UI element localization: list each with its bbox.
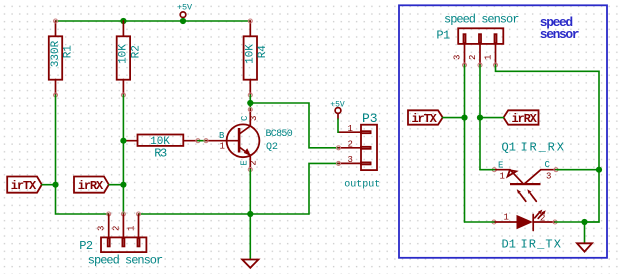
junction top rail R2 [120,18,126,24]
svg-text:330R: 330R [50,40,62,67]
wire Q1 emitter [480,169,494,171]
photo arrows [520,194,526,202]
svg-text:Q2: Q2 [266,142,278,153]
wire emitter rail [139,213,310,215]
svg-text:3: 3 [249,116,259,121]
hierarchical label irTX in box [408,110,443,126]
svg-text:1: 1 [127,226,137,231]
connector P3 [337,111,381,191]
svg-text:IR_TX: IR_TX [521,238,563,252]
wire irTX to node [42,184,56,186]
junction pin2/irRX [477,115,483,121]
wire P1 pin2 down [479,65,481,170]
resistor R1 [49,19,75,97]
svg-text:C: C [545,160,551,170]
svg-text:3: 3 [546,172,551,182]
svg-text:3: 3 [97,226,107,231]
transistor Q2 [204,108,293,172]
svg-text:2: 2 [348,140,353,150]
wire pin3 leg to LED anode [465,221,495,223]
svg-text:3: 3 [453,55,463,60]
svg-text:R4: R4 [257,45,269,59]
power +5V main [177,3,193,21]
svg-text:1: 1 [220,142,225,152]
junction R2/R3 [120,138,126,144]
svg-text:R2: R2 [130,45,142,58]
svg-text:P3: P3 [362,111,378,126]
hierarchical label irTX [7,177,42,194]
svg-text:D1: D1 [502,238,516,252]
junction pin3/irTX [461,115,467,121]
svg-text:output: output [344,180,380,191]
wire emitter down [249,170,251,215]
transistor Q1 [492,140,565,201]
hierarchical label irRX [74,177,109,194]
wire collector to P3 pin2 [250,103,338,148]
sheet box [399,5,607,257]
svg-text:P1: P1 [436,28,450,42]
wire LED cathode to rail [555,221,599,223]
wire top +5V rail [56,20,251,22]
svg-text:1: 1 [348,124,353,134]
junction emitter node [247,211,253,217]
wire R1 bottom to irTX node [55,95,57,185]
svg-text:+5V: +5V [177,3,193,13]
svg-text:2: 2 [111,226,121,231]
svg-text:Q1: Q1 [502,140,516,154]
junction collector node [247,100,253,106]
junction gnd tap [581,219,587,225]
wire ground stem right [584,222,586,243]
svg-text:R3: R3 [154,146,167,160]
wire R4 bottom to collector node [249,95,251,110]
svg-text:irTX: irTX [412,112,438,126]
svg-text:10K: 10K [245,44,257,64]
svg-text:irRX: irRX [78,179,104,193]
svg-text:E: E [498,161,503,171]
wire P3 pin3 leg [309,163,339,214]
ground left [242,260,258,268]
svg-text:BC850: BC850 [266,129,293,140]
svg-text:10K: 10K [118,44,130,64]
svg-text:2: 2 [468,55,478,60]
junction collector/rail [596,167,602,173]
svg-text:3: 3 [348,155,353,165]
connector P2 [79,212,163,267]
junction top rail +5V [180,18,186,24]
resistor R3 [123,135,199,161]
junction irTX node [52,182,58,188]
svg-text:sensor: sensor [540,27,579,42]
svg-text:irTX: irTX [11,179,37,193]
power +5V P3 [330,100,345,132]
svg-text:speed sensor: speed sensor [88,253,163,267]
wire irTX node down to P2 pin3 [56,185,109,214]
led arrows [535,212,540,218]
svg-text:speed sensor: speed sensor [444,13,519,27]
ground right [577,243,592,251]
svg-text:IR_RX: IR_RX [521,140,566,154]
svg-text:B: B [219,131,225,141]
LED D1 [492,210,562,252]
wire R2 bottom down [122,95,124,214]
svg-text:1: 1 [500,172,505,182]
svg-text:2: 2 [248,160,258,165]
junction irRX node [120,182,126,188]
wire ground stem left [249,214,251,260]
svg-text:1: 1 [484,55,494,60]
hierarchical label irRX in box [504,110,539,126]
svg-text:R1: R1 [62,45,74,59]
svg-text:1: 1 [504,213,509,223]
wire irTX to pin3 wire [443,117,465,119]
connector P1 [436,13,519,67]
wire R3 to Q2 base [198,140,206,142]
wire irRX to node [109,184,123,186]
wire Q1 collector to rail [556,169,599,171]
svg-text:irRX: irRX [512,112,538,126]
resistor R2 [117,21,143,97]
svg-text:P2: P2 [79,239,93,253]
wire irRX to pin2 wire [480,117,504,119]
wire P1 pin3 down [464,65,466,222]
wire P1 pin1 to right rail [496,65,600,222]
svg-text:+5V: +5V [330,100,345,109]
resistor R4 [244,19,270,97]
